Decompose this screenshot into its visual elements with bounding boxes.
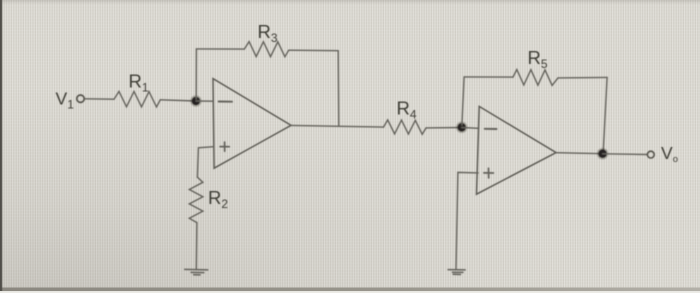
op-amp U2 plus marking <box>484 168 494 178</box>
resistor R2 <box>189 177 203 222</box>
op-amp U2 minus marking <box>485 128 497 130</box>
node A junction dot <box>190 95 201 106</box>
wire R5 left lead <box>464 76 513 78</box>
terminal: V1 input <box>77 95 84 102</box>
op-amp U1 plus marking <box>220 142 229 151</box>
resistor R5 <box>513 70 558 86</box>
wire node A to op-amp U1 inverting input <box>196 100 213 102</box>
node C junction dot <box>597 148 608 159</box>
wire node A up to R3 <box>195 49 197 99</box>
wire U2 output to node C <box>556 153 603 154</box>
wire V1 terminal to R1 <box>85 98 114 100</box>
op-amp U2 <box>477 106 557 194</box>
node B junction dot <box>456 122 467 133</box>
resistor R4 <box>384 120 427 134</box>
op-amp U1 <box>213 79 291 169</box>
wire R5 right down to node C <box>603 77 607 150</box>
wire U1 non-inverting input to R2 <box>197 147 213 178</box>
wire U1 output to R4 <box>291 125 383 127</box>
resistor R1 <box>114 91 160 107</box>
op-amp U1 minus marking <box>219 101 232 103</box>
ground (R2) <box>185 269 208 275</box>
wire node C to Vo terminal <box>603 153 647 156</box>
wire U2 non-inverting input to ground <box>456 172 478 269</box>
wire R2 to ground <box>195 223 198 270</box>
wire R5 right lead <box>558 76 607 79</box>
resistor R3 <box>244 42 288 57</box>
ground (U2) <box>448 270 465 275</box>
wire node B up to R5 <box>462 77 464 125</box>
wire R3 left lead <box>196 48 244 50</box>
wire R1 to node A <box>160 100 196 101</box>
wire R4 to node B <box>426 127 462 129</box>
wire R3 right down to U1 output <box>337 51 340 127</box>
terminal: Vo output <box>647 151 654 158</box>
wire node B to op-amp U2 inverting input <box>462 127 479 130</box>
wire R3 right lead <box>289 49 339 52</box>
